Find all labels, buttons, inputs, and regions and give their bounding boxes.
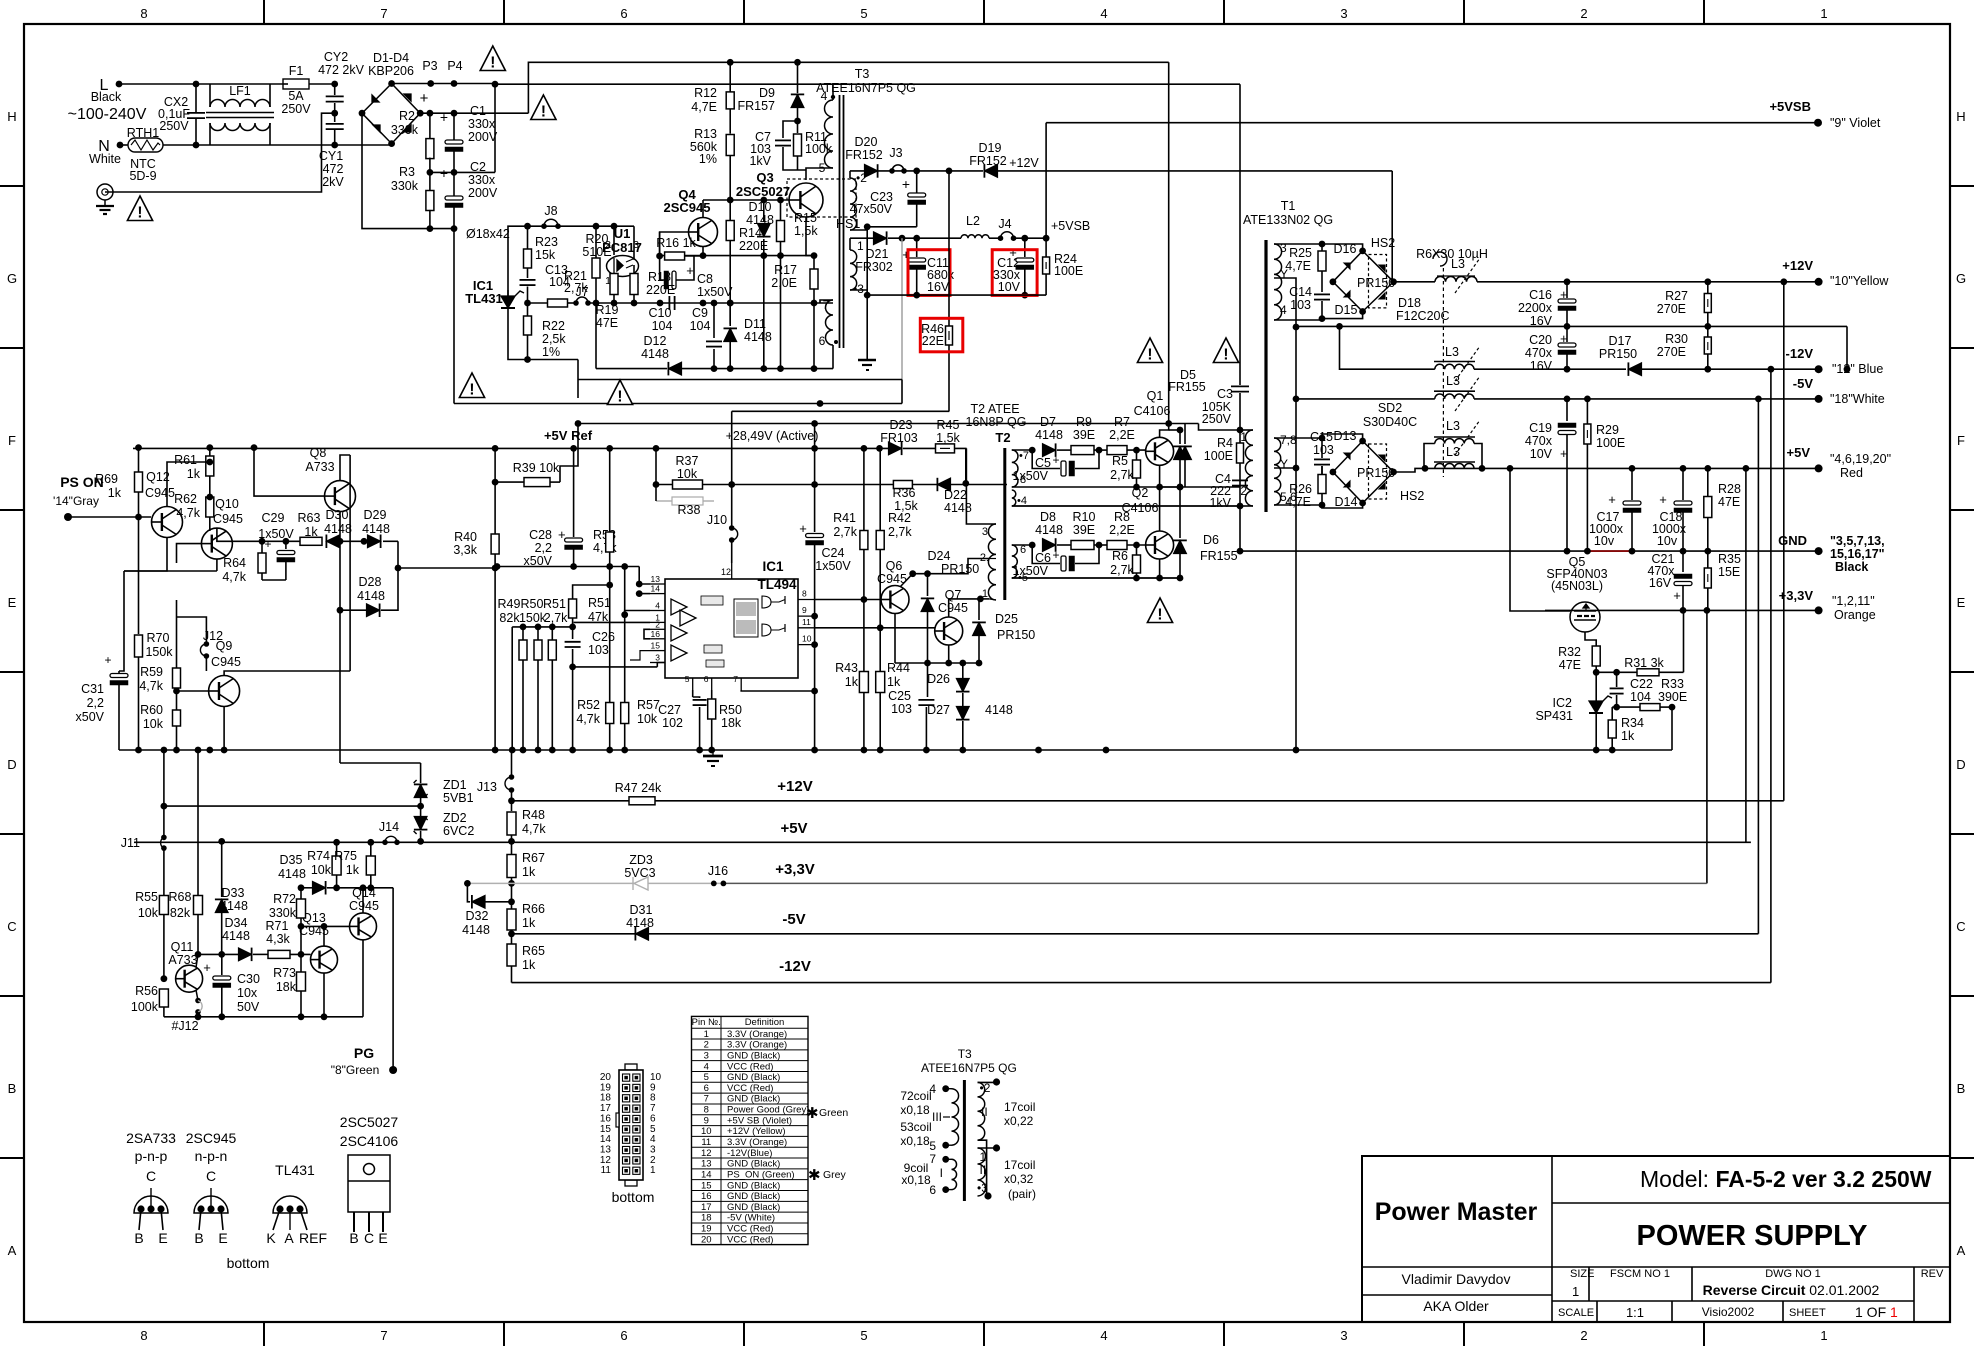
svg-text:C10: C10: [649, 306, 672, 320]
svg-text:GND (Black): GND (Black): [727, 1180, 780, 1191]
wire Q6 collector to T2 tap: [913, 559, 989, 574]
pin3 wire: [573, 666, 658, 668]
svg-text:D35: D35: [280, 853, 303, 867]
svg-text:E: E: [218, 1230, 227, 1246]
svg-text:3: 3: [1340, 1328, 1347, 1343]
svg-text:C9: C9: [692, 306, 708, 320]
feedback riser +5V: [1745, 468, 1747, 842]
svg-text:ATEE16N7P5 QG: ATEE16N7P5 QG: [816, 81, 916, 95]
svg-text:GND: GND: [1778, 533, 1807, 548]
svg-text:C8: C8: [697, 272, 713, 286]
svg-text:A: A: [8, 1243, 17, 1258]
wire Q13 emitter: [323, 973, 325, 1017]
svg-text:p-n-p: p-n-p: [135, 1148, 168, 1164]
svg-text:IC2: IC2: [1553, 696, 1573, 710]
svg-text:E: E: [1957, 595, 1966, 610]
feedback box bottom rail: [524, 356, 531, 363]
warning triangle under Q2: [1147, 598, 1172, 623]
wire R33 to grey sense: [1671, 707, 1673, 750]
svg-text:C19: C19: [1529, 421, 1552, 435]
svg-text:82k: 82k: [499, 611, 520, 625]
feedback riser -5V: [1757, 399, 1759, 934]
wire D28 node to R40: [398, 567, 495, 569]
svg-text:R57: R57: [637, 698, 660, 712]
wire bridge output to L3: [1394, 281, 1436, 283]
svg-text:R30: R30: [1665, 332, 1688, 346]
svg-text:100E: 100E: [1596, 436, 1625, 450]
warning triangle near ground: [127, 196, 152, 221]
wire LF1 top: [209, 84, 211, 107]
svg-text:6: 6: [620, 1328, 627, 1343]
R49-51 top junction row: [512, 626, 572, 628]
svg-text:5A: 5A: [288, 89, 304, 103]
wire R59 top: [176, 600, 178, 617]
diode D7 line: [1029, 447, 1036, 454]
svg-text:AKA Older: AKA Older: [1423, 1298, 1489, 1314]
svg-text:PS_ON (Green): PS_ON (Green): [727, 1169, 795, 1180]
svg-text:D12: D12: [644, 334, 667, 348]
svg-text:102: 102: [662, 716, 683, 730]
GND rail: [1240, 550, 1819, 552]
wire R15 D10 to emitter rail: [763, 256, 765, 369]
svg-text:•2: •2: [980, 1081, 991, 1095]
svg-text:R14: R14: [739, 226, 762, 240]
svg-text:4,7k: 4,7k: [222, 570, 246, 584]
svg-text:R63: R63: [298, 511, 321, 525]
svg-text:1k: 1k: [522, 958, 536, 972]
svg-text:+: +: [440, 109, 448, 125]
pin4 wire: [625, 611, 650, 615]
svg-text:8: 8: [140, 6, 147, 21]
svg-text:7: 7: [704, 1094, 709, 1105]
svg-text:330k: 330k: [269, 906, 297, 920]
svg-text:2kV: 2kV: [322, 175, 344, 189]
wire Q2 collector: [1159, 487, 1161, 531]
svg-text:R20: R20: [586, 232, 609, 246]
svg-text:4148: 4148: [985, 703, 1013, 717]
svg-text:C26: C26: [592, 630, 615, 644]
+5VSB riser: [1043, 235, 1050, 242]
diode D5b across Q1: [1179, 430, 1181, 444]
svg-text:103: 103: [891, 702, 912, 716]
svg-text:390E: 390E: [1658, 690, 1687, 704]
svg-text:2200x: 2200x: [1518, 301, 1553, 315]
+5V line: [1425, 467, 1819, 469]
svg-text:4148: 4148: [1035, 428, 1063, 442]
svg-text:104: 104: [1630, 690, 1651, 704]
svg-text:R28: R28: [1718, 482, 1741, 496]
svg-text:39E: 39E: [1073, 428, 1095, 442]
wire Q3 emitter: [806, 217, 814, 256]
svg-text:1k: 1k: [187, 467, 201, 481]
svg-text:11: 11: [601, 1165, 612, 1176]
svg-text:R60: R60: [140, 703, 163, 717]
svg-text:R33: R33: [1661, 677, 1684, 691]
svg-text:R42: R42: [888, 511, 911, 525]
svg-text:250V: 250V: [1202, 412, 1232, 426]
svg-text:4,7E: 4,7E: [691, 100, 717, 114]
U1 pin1 wire: [613, 273, 615, 277]
svg-text:1: 1: [982, 588, 988, 600]
svg-text:✱: ✱: [808, 1167, 821, 1184]
svg-text:HS2: HS2: [1371, 236, 1395, 250]
svg-text:15E: 15E: [1718, 565, 1740, 579]
svg-text:10: 10: [802, 634, 812, 644]
svg-text:10: 10: [701, 1126, 712, 1137]
svg-text:C: C: [146, 1168, 156, 1184]
svg-text:8: 8: [140, 1328, 147, 1343]
svg-text:4,7E: 4,7E: [1285, 495, 1311, 509]
svg-text:J10: J10: [707, 513, 727, 527]
svg-text:R66: R66: [522, 902, 545, 916]
svg-text:1: 1: [1820, 6, 1827, 21]
svg-text:R32: R32: [1558, 645, 1581, 659]
svg-text:47E: 47E: [596, 316, 618, 330]
svg-text:R15: R15: [794, 211, 817, 225]
HV+ bus from bridge: [420, 112, 528, 114]
svg-text:T1: T1: [1281, 199, 1296, 213]
svg-text:x0,18: x0,18: [900, 1103, 930, 1117]
crossover line 566: [497, 566, 639, 568]
svg-text:4148: 4148: [324, 522, 352, 536]
svg-text:100k: 100k: [131, 1000, 159, 1014]
svg-text:10V: 10V: [998, 280, 1021, 294]
svg-text:1: 1: [650, 1165, 656, 1176]
svg-text:2,7k: 2,7k: [1110, 563, 1134, 577]
wire Q9 base: [177, 690, 209, 692]
svg-text:3: 3: [655, 653, 660, 663]
svg-text:D21: D21: [866, 247, 889, 261]
terminal +3.3V: [1815, 606, 1823, 614]
svg-text:"9" Violet: "9" Violet: [1830, 116, 1881, 130]
PS ON terminal: [64, 513, 72, 521]
svg-text:R47 24k: R47 24k: [615, 781, 662, 795]
svg-text:4,7k: 4,7k: [139, 679, 163, 693]
svg-text:R12: R12: [694, 86, 717, 100]
wire Q8 base wire: [254, 448, 325, 497]
svg-text:R31 3k: R31 3k: [1624, 656, 1664, 670]
svg-text:D6: D6: [1203, 533, 1219, 547]
wire Q11 emitter up: [196, 954, 198, 967]
svg-text:13: 13: [600, 1144, 612, 1155]
svg-text:R5: R5: [1112, 454, 1128, 468]
svg-text:+5VSB: +5VSB: [1051, 219, 1090, 233]
resistor R51c: [551, 627, 553, 640]
svg-text:4,7k: 4,7k: [576, 712, 600, 726]
svg-text:R23: R23: [535, 235, 558, 249]
svg-text:A733: A733: [305, 460, 334, 474]
svg-text:PR150: PR150: [1357, 466, 1395, 480]
wire HV to D5 C3: [1239, 84, 1241, 385]
svg-text:PR150: PR150: [941, 562, 979, 576]
svg-text:7: 7: [650, 1103, 656, 1114]
svg-text:T3: T3: [855, 67, 870, 81]
svg-text:472 2kV: 472 2kV: [318, 63, 365, 77]
svg-text:2,7k: 2,7k: [833, 525, 857, 539]
svg-text:E: E: [378, 1230, 387, 1246]
svg-text:Vladimir Davydov: Vladimir Davydov: [1402, 1271, 1511, 1287]
Q6 emitter: [894, 614, 896, 664]
svg-text:15k: 15k: [535, 248, 556, 262]
svg-text:D20: D20: [855, 135, 878, 149]
svg-text:6: 6: [650, 1113, 656, 1124]
resistor R13: [726, 135, 734, 156]
svg-text:D: D: [1956, 757, 1965, 772]
svg-text:"1,2,11": "1,2,11": [1832, 594, 1875, 608]
svg-text:R64: R64: [223, 556, 246, 570]
svg-text:104: 104: [690, 319, 711, 333]
svg-text:+28,49V (Active): +28,49V (Active): [726, 429, 819, 443]
wire Q9 collector: [224, 671, 350, 676]
svg-text:SCALE: SCALE: [1558, 1307, 1594, 1319]
svg-text:10: 10: [650, 1072, 662, 1083]
svg-text:12: 12: [721, 567, 731, 577]
svg-text:6VC2: 6VC2: [443, 824, 474, 838]
svg-text:R75: R75: [334, 849, 357, 863]
svg-text:Orange: Orange: [1834, 608, 1876, 622]
emitter bus: [895, 662, 979, 664]
T3 winding I left: [952, 1159, 957, 1189]
svg-text:•3: •3: [977, 1181, 988, 1195]
svg-text:4148: 4148: [362, 522, 390, 536]
svg-text:Q3: Q3: [756, 170, 773, 185]
svg-text:Q7: Q7: [945, 588, 962, 602]
svg-text:C29: C29: [262, 511, 285, 525]
PG sense line: [164, 805, 421, 807]
svg-text:1: 1: [980, 1150, 987, 1164]
svg-text:D33: D33: [222, 886, 245, 900]
svg-text:R37: R37: [676, 454, 699, 468]
svg-text:2,2E: 2,2E: [1109, 428, 1135, 442]
svg-text:"3,5,7,13,: "3,5,7,13,: [1830, 534, 1885, 548]
svg-text:4: 4: [704, 1061, 709, 1072]
svg-text:R40: R40: [454, 530, 477, 544]
svg-text:"4,6,19,20": "4,6,19,20": [1830, 452, 1891, 466]
svg-text:-5V (White): -5V (White): [727, 1213, 775, 1224]
svg-text:150k: 150k: [145, 645, 173, 659]
T3 winding II right bottom: [978, 1140, 987, 1196]
frame column ticks: [263, 0, 265, 24]
svg-text:13: 13: [701, 1159, 712, 1170]
svg-text:"8"Green: "8"Green: [331, 1063, 380, 1077]
svg-text:4148: 4148: [222, 929, 250, 943]
svg-text:47x50V: 47x50V: [850, 202, 893, 216]
svg-text:R48: R48: [522, 808, 545, 822]
svg-text:R51: R51: [588, 596, 611, 610]
svg-text:472: 472: [323, 162, 344, 176]
terminal +5V: [1815, 464, 1823, 472]
svg-text:J16: J16: [708, 864, 728, 878]
svg-text:ATEE16N7P5 QG: ATEE16N7P5 QG: [921, 1061, 1017, 1075]
svg-text:R72: R72: [273, 892, 296, 906]
svg-text:3.3V (Orange): 3.3V (Orange): [727, 1137, 787, 1148]
svg-text:2SC5027: 2SC5027: [340, 1114, 399, 1130]
svg-text:J3: J3: [889, 146, 902, 160]
svg-text:x0,18: x0,18: [900, 1134, 930, 1148]
svg-text:4: 4: [1280, 303, 1287, 317]
T3 winding II right top: [978, 1082, 985, 1140]
svg-text:Q10: Q10: [215, 497, 239, 511]
svg-text:5VC3: 5VC3: [624, 866, 655, 880]
svg-text:1k: 1k: [1621, 729, 1635, 743]
wire Q2 emitter bus: [1012, 577, 1180, 579]
capacitor C23: [913, 168, 920, 175]
svg-text:6: 6: [704, 674, 709, 684]
svg-text:4148: 4148: [744, 330, 772, 344]
svg-text:1:1: 1:1: [1626, 1305, 1644, 1320]
resistor R50: [537, 627, 539, 640]
T2 winding 6-5: [1012, 545, 1018, 578]
standby lower link wire: [578, 379, 902, 381]
svg-text:D23: D23: [890, 418, 913, 432]
svg-text:330k: 330k: [391, 179, 419, 193]
svg-text:14: 14: [600, 1134, 612, 1145]
svg-text:Q11: Q11: [171, 940, 194, 954]
Q7 collector: [949, 599, 981, 617]
svg-text:T2 ATEE: T2 ATEE: [970, 402, 1019, 416]
svg-text:R59: R59: [140, 665, 163, 679]
svg-text:+: +: [1659, 492, 1667, 507]
svg-text:10k: 10k: [138, 906, 159, 920]
wire Q12 emitter: [124, 538, 167, 572]
svg-text:1x50V: 1x50V: [815, 559, 851, 573]
wire L: [119, 83, 288, 85]
svg-text:5: 5: [685, 674, 690, 684]
svg-text:D30: D30: [326, 508, 349, 522]
svg-text:C: C: [7, 919, 16, 934]
svg-text:9: 9: [650, 1082, 656, 1093]
svg-text:Grey: Grey: [823, 1169, 847, 1181]
wire Q8 emitter top: [340, 455, 350, 481]
resistor R46: [946, 168, 953, 175]
wire Q2 emitter: [1159, 559, 1161, 578]
svg-text:1,5k: 1,5k: [794, 224, 818, 238]
svg-text:+: +: [902, 176, 910, 192]
svg-text:9: 9: [704, 1115, 709, 1126]
svg-text:D10: D10: [749, 200, 772, 214]
svg-text:6: 6: [704, 1083, 709, 1094]
wire Q14 emitter: [362, 940, 364, 1017]
svg-text:22E: 22E: [922, 334, 944, 348]
svg-text:+: +: [264, 537, 271, 551]
ATX connector 20pin: [625, 1064, 637, 1070]
svg-text:II: II: [981, 1105, 988, 1119]
svg-text:R52: R52: [577, 698, 600, 712]
choke pair loop: [1424, 444, 1435, 469]
svg-text:+: +: [1673, 588, 1681, 603]
svg-text:4148: 4148: [278, 867, 306, 881]
svg-text:E: E: [8, 595, 17, 610]
svg-text:"12" Blue: "12" Blue: [1832, 362, 1883, 376]
svg-text:!: !: [1147, 347, 1152, 364]
svg-text:330x: 330x: [468, 173, 496, 187]
svg-text:-12V: -12V: [1786, 346, 1814, 361]
-5V line: [1296, 398, 1435, 400]
dashed core line through chokes: [1442, 268, 1444, 477]
svg-text:150k: 150k: [519, 611, 547, 625]
svg-text:510E: 510E: [582, 245, 611, 259]
svg-text:L3: L3: [1451, 257, 1465, 271]
svg-text:FR103: FR103: [880, 431, 918, 445]
svg-text:VCC (Red): VCC (Red): [727, 1083, 773, 1094]
warning triangle bottom left: [459, 373, 484, 398]
svg-text:+5VSB: +5VSB: [1769, 99, 1811, 114]
wire bridge top to P3 P4: [392, 83, 495, 85]
earth ground symbol: [97, 184, 113, 200]
line B with R37 R36 D22: [656, 484, 1007, 486]
wire vertical to bridge D16 area: [1391, 171, 1393, 283]
svg-text:SP431: SP431: [1535, 709, 1573, 723]
svg-text:R3: R3: [399, 165, 415, 179]
svg-text:FSCM NO 1: FSCM NO 1: [1610, 1268, 1670, 1280]
svg-text:bottom: bottom: [227, 1255, 270, 1271]
svg-text:T3: T3: [958, 1047, 972, 1061]
svg-text:D8: D8: [1040, 510, 1056, 524]
svg-text:250V: 250V: [281, 102, 311, 116]
T2 winding 8-4: [1012, 490, 1016, 506]
svg-text:!: !: [541, 104, 546, 121]
svg-text:1k: 1k: [887, 675, 901, 689]
svg-text:D29: D29: [364, 508, 387, 522]
svg-text:C: C: [206, 1168, 216, 1184]
svg-text:7: 7: [380, 6, 387, 21]
svg-text:REF: REF: [299, 1230, 327, 1246]
svg-text:!: !: [137, 205, 142, 222]
svg-text:7,8: 7,8: [1280, 433, 1297, 447]
ground symbol under rail: [712, 750, 714, 755]
svg-text:GND (Black): GND (Black): [727, 1202, 780, 1213]
svg-text:R25: R25: [1289, 246, 1312, 260]
svg-text:FR155: FR155: [1200, 549, 1238, 563]
svg-text:8: 8: [704, 1105, 709, 1116]
IC pin8 wire to Q6: [815, 599, 881, 601]
IC1 pin12 top wire: [731, 563, 733, 579]
svg-text:L3: L3: [1446, 374, 1460, 388]
svg-text:2,2: 2,2: [535, 541, 552, 555]
svg-text:R2: R2: [399, 109, 415, 123]
svg-text:2,2: 2,2: [87, 696, 104, 710]
svg-text:C25: C25: [888, 689, 911, 703]
svg-text:Pin №.: Pin №.: [692, 1017, 721, 1028]
svg-text:A: A: [1957, 1243, 1966, 1258]
svg-text:1 OF 1: 1 OF 1: [1855, 1304, 1898, 1320]
svg-text:47E: 47E: [1718, 495, 1740, 509]
terminal -12V: [1815, 365, 1823, 373]
wire T2 pin4 line to T1 pin2: [1012, 505, 1240, 507]
svg-text:11: 11: [701, 1137, 711, 1148]
svg-text:R17: R17: [774, 263, 797, 277]
+12V standby line: [850, 170, 983, 172]
wire J7 down to active rail: [577, 360, 579, 399]
svg-text:R4: R4: [1217, 436, 1233, 450]
svg-text:3: 3: [1280, 241, 1287, 255]
T3 secondary winding 1-3: [850, 250, 857, 290]
svg-text:S30D40C: S30D40C: [1363, 415, 1417, 429]
svg-text:7: 7: [733, 674, 738, 684]
svg-text:R71: R71: [266, 919, 289, 933]
svg-text:R43: R43: [835, 661, 858, 675]
svg-text:15: 15: [651, 641, 661, 651]
capacitor C11: [913, 235, 920, 242]
svg-text:10k: 10k: [677, 467, 698, 481]
svg-text:G: G: [7, 271, 17, 286]
svg-text:19: 19: [701, 1224, 712, 1235]
svg-text:C945: C945: [938, 601, 968, 615]
wire Q3 emitter to bus: [813, 303, 815, 369]
T3 primary winding 4-5: [825, 100, 834, 168]
terminal GND: [1815, 547, 1823, 555]
svg-text:5: 5: [860, 6, 867, 21]
